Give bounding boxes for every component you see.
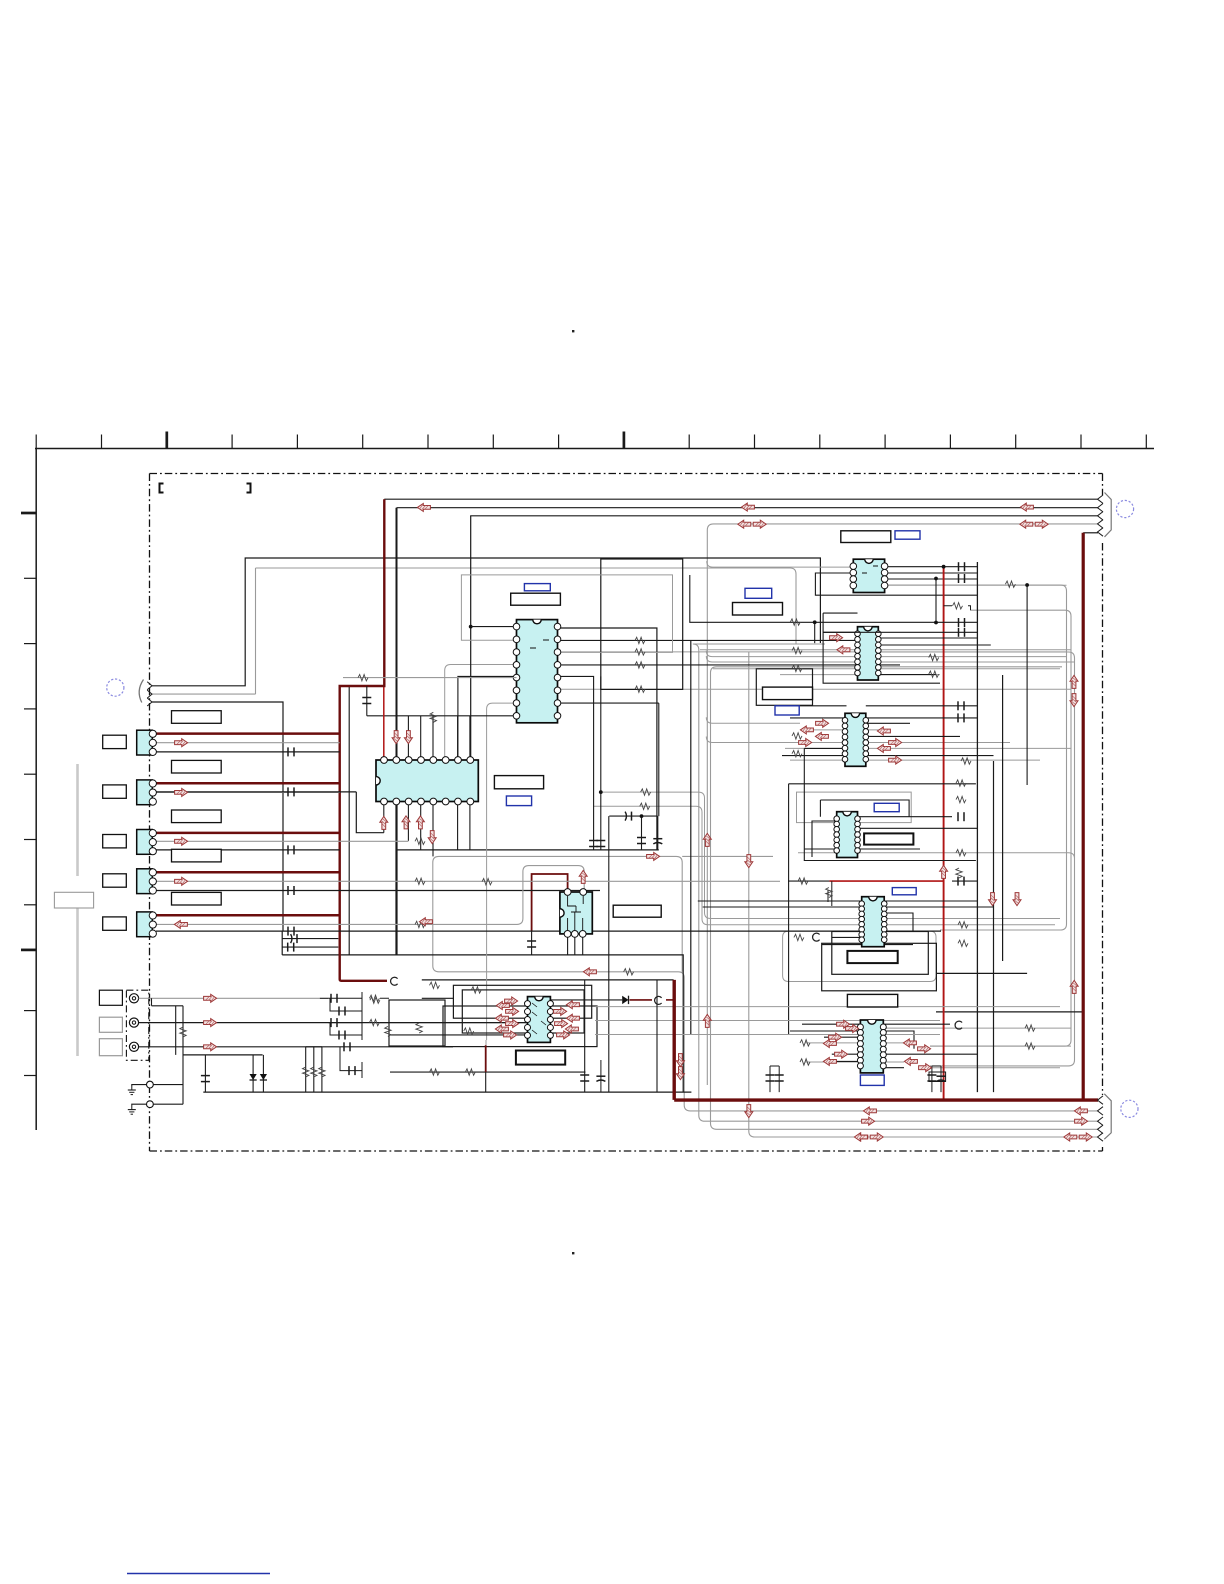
power net maroon bottom: [674, 980, 1098, 1100]
connector CN1 body: [137, 730, 153, 755]
gray bus G2 bottom loop: [433, 856, 1098, 1111]
capacitor on CN2 pin3 wire: [287, 787, 289, 796]
arrow bottom mid G5: [854, 1133, 867, 1141]
gray wire CN1 pin2: [156, 742, 340, 744]
maroon stub bottom mid: [485, 1045, 487, 1072]
wire opto left rows: [390, 998, 528, 1035]
IC U3 transistor internals: [568, 896, 584, 930]
connector CN4 body: [137, 869, 153, 894]
arrow red vert pair: [940, 865, 948, 878]
gray wire CN3 pin2: [156, 840, 408, 842]
blue footer underline: [127, 1573, 270, 1575]
power arrows: [204, 994, 217, 1002]
power verticals: [152, 998, 184, 1104]
capacitor on CN1 pin3 wire: [287, 747, 289, 756]
wire red row y881: [829, 880, 943, 882]
caps x931 pair: [932, 1066, 941, 1092]
power jack J1: [129, 994, 138, 1003]
cap cluster B: [328, 1016, 362, 1040]
wire top exit 3: [470, 515, 1098, 517]
gray rows right of opto: [595, 1006, 1060, 1008]
gray bus right margin A: [885, 585, 1067, 930]
ref label left of U5: [733, 603, 783, 616]
wire IC2 bottom pins: [383, 804, 385, 833]
black wire CN1 pin3: [156, 751, 340, 753]
left margin label box: [54, 892, 93, 908]
section frame verticals: [690, 640, 692, 1035]
wire verticals below opto: [656, 980, 658, 1092]
arrows at U6 right: [877, 727, 890, 735]
test point blue below U2: [506, 796, 531, 806]
black wire CN3 pin3: [156, 849, 340, 851]
capacitor on CN3 pin3 wire: [287, 845, 289, 854]
power jack J2: [129, 1018, 138, 1027]
ruler top tick marks: [35, 435, 37, 449]
wire y622 row: [690, 575, 978, 643]
maroon wire CN1 pin1: [156, 732, 340, 735]
wire IC4 left stubs: [707, 561, 854, 567]
gray vertical x486 lower: [485, 1040, 487, 1045]
wire y1012: [936, 1011, 1083, 1013]
right top brace: [1105, 493, 1112, 537]
gray bus nested around IC8: [783, 931, 936, 981]
connector ring CN903 right bottom: [1121, 1100, 1138, 1117]
power net maroon trunk right: [1083, 532, 1098, 534]
box below U5: [756, 669, 812, 706]
signal arrow CN1: [175, 739, 188, 747]
IC U5: [858, 627, 879, 680]
arrows right margin verticals: [1070, 675, 1078, 688]
diode D902: [262, 1055, 264, 1092]
power jack J3: [129, 1042, 138, 1051]
registration dot upper: [572, 330, 574, 332]
board name brackets: [160, 484, 164, 493]
wire row y1072: [390, 1071, 586, 1073]
IC U6: [845, 713, 866, 766]
wire IC3s transistor subcircuit: [568, 934, 583, 955]
left entry brace: [139, 680, 143, 703]
page ruler left line: [35, 449, 37, 1131]
cap pair right of U6: [957, 701, 959, 710]
gray bus G5: [749, 652, 1098, 1137]
right exit chevrons bottom: [1098, 1096, 1104, 1104]
resistor trio: [305, 1047, 307, 1092]
wire IC8 right stubs: [884, 901, 993, 945]
wire IC8 left stubs: [698, 901, 862, 945]
gray wire CN4 pin2: [156, 880, 780, 882]
arrow mid gray left: [419, 918, 432, 926]
cap pair right of U4: [958, 562, 960, 571]
resistor s marks: [430, 712, 436, 722]
gray wire IC1 left rows: [445, 665, 517, 759]
power wire 1 gray: [139, 997, 320, 999]
diode D901: [252, 1055, 254, 1092]
arrows at U10 right: [566, 1001, 579, 1009]
ruler left tick marks: [21, 512, 36, 515]
wire IC1 right rows: [558, 628, 657, 850]
wire top exit 2: [397, 507, 1099, 509]
IC U9: [860, 1020, 883, 1073]
maroon wire CN4 pin1: [156, 871, 340, 874]
left entry chevrons: [147, 682, 152, 690]
gray wire IC6 rows: [706, 717, 800, 723]
arrows below U2: [380, 816, 388, 829]
IC U4 8pin top right: [853, 559, 884, 592]
power net maroon trunk left: [340, 499, 387, 981]
ref label right of U2: [494, 776, 543, 789]
connector CN5 name label: [172, 892, 222, 905]
polarized cap on y816 line: [625, 812, 626, 821]
caps x770 pair: [770, 1066, 779, 1092]
gray box around IC7: [797, 792, 912, 823]
wire left entry B gray: [152, 693, 256, 695]
wire opto to diode: [550, 999, 622, 1001]
IC U10 photocoupler: [528, 997, 551, 1043]
arrow top left: [417, 503, 430, 511]
arrow on G2 top: [647, 852, 660, 860]
gray wire CN2 pin2: [156, 791, 340, 793]
wire trunk x470 to IC2: [470, 516, 472, 761]
arrows at U9 right: [903, 1039, 916, 1047]
connector CN4 outer label: [103, 874, 127, 887]
wire caps verticals below IC1: [642, 703, 659, 850]
wire IC5 left box: [823, 613, 940, 683]
registration dot lower: [572, 1252, 574, 1254]
wire left entry A: [152, 558, 820, 686]
connector CN1 name label: [172, 711, 222, 724]
cap below U3: [531, 931, 533, 955]
capacitor on CN5 pin3 wire: [287, 927, 289, 936]
maroon IC3s feed: [532, 874, 568, 931]
connector CN5 body: [137, 912, 153, 937]
connector CN3 outer label: [103, 835, 127, 848]
maroon wire CN5 pin1: [156, 914, 340, 917]
arrow on G2 left: [583, 968, 596, 976]
wire trunk x977: [976, 562, 978, 1092]
gray wire CN5 pin2: [156, 866, 584, 925]
board outline dash-dot border: [150, 473, 1103, 475]
arrows bottom exits right: [1074, 1107, 1087, 1115]
wire IC2 pin1 red feed: [383, 686, 385, 757]
gray wire IC8 rows: [601, 792, 1060, 918]
wire IC8 boxes: [832, 932, 929, 975]
ref label right of U7: [864, 833, 913, 844]
wire IC9 right stubs: [883, 1024, 978, 1068]
IC U1 dimple marks: [530, 640, 549, 648]
cap single D: [340, 1047, 362, 1078]
signal arrow CN2: [175, 788, 188, 796]
net label C diode: [655, 996, 662, 1004]
arrows bottom exits mid: [863, 1107, 876, 1115]
wire opto boxes: [453, 985, 591, 1018]
polarized cap ladder: [291, 934, 292, 943]
bus y954: [282, 955, 683, 1092]
test point blue below U9: [860, 1075, 884, 1085]
net label C left: [391, 977, 398, 985]
IC U2 big horizontal: [376, 760, 478, 802]
cap ladder2: [287, 943, 289, 952]
wire diode to C maroon: [630, 999, 653, 1001]
wire top exit 1: [384, 498, 1098, 500]
connector CN3 name label: [172, 810, 222, 823]
wire bottom bus ground: [203, 1091, 691, 1093]
IC U1 main top-middle: [517, 620, 558, 723]
caps bottom mid pair: [600, 1060, 602, 1092]
cap right of U7: [957, 812, 959, 821]
power wire 2: [139, 1022, 528, 1024]
ref label top right: [841, 531, 891, 543]
IC U8: [862, 897, 885, 947]
resistor w marks bottom: [369, 995, 379, 1001]
gray bus G1 top-right exit: [707, 524, 1098, 1085]
gray bus G4: [711, 667, 1099, 1130]
arrows at U9 left: [837, 1020, 850, 1028]
arrows at U6 left: [816, 719, 829, 727]
ref label mid U8-U9: [847, 994, 897, 1007]
connector CN5 outer label: [103, 917, 127, 930]
caps below U1 pair1: [589, 840, 598, 842]
cap cluster A: [328, 992, 362, 1016]
connector CN2 name label: [172, 760, 222, 773]
power jack labels: [99, 990, 122, 1005]
connector CN3 body: [137, 830, 153, 855]
wire vertical x349: [348, 686, 350, 955]
maroon wire CN3 pin1: [156, 832, 340, 835]
maroon wire CN2 pin1: [156, 782, 340, 785]
arrows top right wires: [741, 503, 754, 511]
wire trunk x1027: [1026, 585, 1028, 785]
bottom mid box: [389, 1000, 445, 1046]
IC U3 regulator with transistor: [560, 892, 592, 934]
caps below U1 pair2: [637, 837, 646, 839]
signal arrow CN3: [175, 837, 188, 845]
IC U10 internals: [532, 1003, 546, 1034]
power cap C901: [204, 1055, 206, 1092]
signal arrow CN4: [175, 877, 188, 885]
cap vertical at x366: [366, 686, 368, 716]
bus y980: [422, 979, 674, 981]
arrows below U1: [392, 731, 400, 744]
wire trunk x943 red: [943, 566, 945, 1100]
signal arrow CN5: [174, 920, 187, 928]
black wire CN2 pin3: [156, 791, 356, 793]
net label C U8: [813, 933, 820, 941]
ref label above U1: [511, 593, 561, 605]
test point blue above U7: [874, 803, 899, 811]
wire trunk x993: [993, 761, 995, 1092]
arrows at U5: [830, 634, 843, 642]
capacitor on CN4 pin3 wire: [287, 886, 289, 895]
connector ring CN901 left: [107, 679, 124, 696]
wire CN2 jog: [356, 792, 384, 833]
ref label left of U6: [763, 687, 813, 700]
cap on red row: [957, 877, 959, 886]
black wire CN5 pin3: [156, 930, 941, 932]
connector CN2 body: [137, 780, 153, 805]
gray bus G3: [693, 644, 1098, 1121]
gray wire y568 route: [256, 568, 797, 694]
net label C U9: [955, 1021, 962, 1029]
connector CN2 outer label: [103, 785, 127, 798]
wire resistor jog right of IC4: [944, 606, 971, 610]
connector CN4 name label: [172, 849, 222, 862]
left margin gray rail: [76, 764, 79, 876]
page ruler top line: [35, 448, 1154, 450]
power sub wire: [183, 1054, 263, 1056]
gray bus right margin B: [930, 610, 1071, 1046]
wire left entry C: [152, 702, 283, 931]
ground pads: [147, 1081, 154, 1088]
gray bus right margin C: [880, 652, 1075, 1066]
test point blue above U8: [892, 888, 916, 895]
ref label below U8: [847, 951, 897, 963]
wire trunk x396: [396, 508, 398, 760]
wire C to trunk maroon: [666, 999, 674, 1001]
resistor marks field: [358, 675, 368, 681]
test point blue left of U6: [775, 706, 799, 715]
gray wire IC1 right rows: [558, 651, 1067, 653]
cap pair above U5: [958, 618, 960, 627]
arrows at U10 left: [505, 997, 518, 1005]
ref label right of U3: [613, 905, 661, 917]
wire IC4 right stubs: [885, 567, 978, 579]
vertical x609: [608, 816, 610, 1092]
wire IC1 pin5 left: [343, 677, 517, 679]
wire IC1 left stubs: [471, 626, 517, 628]
cap single C: [343, 1042, 345, 1051]
diode D101: [622, 996, 628, 1004]
ref label below U10: [516, 1051, 565, 1065]
wire IC2 top pins: [395, 716, 397, 757]
arrow at U3 maroon: [579, 870, 587, 883]
test point blue top right: [895, 531, 920, 539]
connector ring CN902 right top: [1116, 500, 1133, 517]
power connector dash-dot box: [126, 990, 148, 1060]
gray wire IC5 rows: [700, 649, 1071, 651]
wire IC9 left stubs: [790, 1024, 862, 1061]
power wire 1 cont: [320, 997, 328, 999]
caps ladder left of trunk: [281, 931, 283, 955]
power wire 3: [139, 1046, 453, 1048]
IC U7: [837, 812, 858, 858]
right exit chevrons top: [1098, 495, 1104, 503]
right bottom brace: [1104, 1094, 1111, 1139]
wire IC7 box: [789, 784, 976, 1035]
black wire CN4 pin3: [156, 890, 600, 892]
wire IC6 box: [782, 718, 976, 861]
bus y850: [397, 849, 659, 851]
test point blue above U1: [524, 584, 550, 591]
connector CN1 outer label: [103, 735, 127, 748]
test point blue left of U5: [745, 588, 772, 598]
